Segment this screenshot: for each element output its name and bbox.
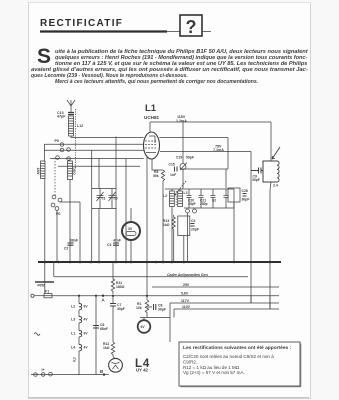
svg-text:C5: C5 — [114, 197, 118, 201]
wire C3 column — [125, 159, 127, 262]
svg-text:Vg (2+4) = 57 V et non 57 mA.: Vg (2+4) = 57 V et non 57 mA. — [183, 370, 245, 375]
switch P0 lower contacts — [51, 195, 62, 210]
svg-text:C1: C1 — [102, 197, 106, 201]
mains terminal left — [31, 294, 34, 297]
wire HT drop right — [270, 122, 272, 161]
ground bus — [38, 261, 281, 263]
capacitor C6 — [93, 326, 99, 329]
wire left column lower — [44, 179, 46, 263]
svg-text:5,6V: 5,6V — [181, 291, 189, 295]
wire heater rail — [52, 295, 279, 297]
svg-text:30µF: 30µF — [158, 308, 166, 312]
intro paragraph — [55, 50, 308, 56]
svg-text:R12 = 1 kΩ au lieu de 1 MΩ: R12 = 1 kΩ au lieu de 1 MΩ — [183, 365, 240, 370]
wire tube to bottom line — [103, 366, 105, 369]
output coil L4 box — [263, 161, 279, 309]
svg-text:C9/R2.: C9/R2. — [183, 359, 197, 364]
svg-text:UCH81: UCH81 — [144, 115, 160, 120]
heading RECTIFICATIF — [40, 19, 123, 29]
svg-text:Cadre Antiparasites Gen: Cadre Antiparasites Gen — [167, 273, 208, 277]
wire C28 column — [233, 202, 235, 262]
wire L5 to bus — [174, 232, 184, 262]
svg-text:UY 42: UY 42 — [136, 367, 148, 372]
svg-text:180Ω: 180Ω — [116, 285, 125, 289]
svg-text:9V: 9V — [84, 332, 89, 336]
wire C6 column — [95, 296, 97, 375]
wire selector drop — [44, 262, 46, 282]
coil T1 antenna secondary — [41, 161, 46, 179]
svg-text:47nF: 47nF — [113, 239, 121, 243]
svg-text:3V: 3V — [128, 227, 133, 231]
capacitor C22 — [224, 189, 229, 208]
IF bottom rail — [184, 189, 234, 208]
wire grid line 3 — [58, 165, 140, 167]
svg-text:68nF: 68nF — [100, 327, 108, 331]
wire oscillator anode — [159, 138, 228, 170]
capacitor C7 — [110, 304, 116, 307]
capacitor C15 — [175, 167, 178, 172]
svg-text:L2: L2 — [71, 305, 75, 309]
? box — [180, 15, 202, 36]
svg-text:OSC: OSC — [73, 167, 77, 175]
heater L3 — [79, 317, 82, 323]
svg-text:4V: 4V — [84, 318, 89, 322]
svg-text:I+: I+ — [42, 368, 45, 372]
svg-text:2.4: 2.4 — [273, 184, 278, 188]
wire — [78, 310, 80, 317]
wire contacts to bus — [172, 207, 188, 263]
switch contacts S — [186, 209, 197, 213]
svg-text:Les rectifications suivantes o: Les rectifications suivantes ont été app… — [183, 345, 292, 351]
indicator lamp 6V — [138, 315, 170, 333]
node B — [103, 373, 105, 375]
svg-text:117V: 117V — [181, 299, 190, 303]
AC symbol — [34, 333, 40, 336]
capacitor C8 — [147, 304, 156, 310]
oscillator section box C28 — [228, 188, 240, 202]
tap line 110V — [174, 309, 279, 318]
wire antenna coil bottom — [71, 136, 144, 138]
svg-text:25V: 25V — [183, 283, 190, 287]
coil L5 box — [178, 216, 190, 236]
wire to ? box — [167, 31, 180, 33]
svg-text:30pF: 30pF — [252, 178, 260, 182]
wire cathode drop — [146, 157, 148, 262]
coil L2 — [170, 191, 175, 207]
coil L12 antenna primary — [69, 109, 76, 169]
fuse F1 — [34, 294, 52, 298]
wire — [78, 337, 80, 345]
svg-text:B: B — [100, 369, 103, 374]
tap line 117V — [170, 303, 279, 318]
coil T2 oscillator — [68, 161, 73, 180]
svg-text:47pF: 47pF — [57, 115, 66, 119]
svg-text:L4: L4 — [71, 346, 75, 350]
svg-text:F050: F050 — [38, 284, 46, 288]
svg-text:C15: C15 — [169, 163, 175, 167]
wire oscillator column — [69, 180, 71, 263]
svg-text:7,1mA: 7,1mA — [213, 148, 224, 152]
mains terminals — [34, 372, 53, 376]
capacitor C4 — [191, 224, 195, 227]
tube V1 internal electrodes — [145, 136, 157, 153]
wire oscillator coil top — [69, 160, 71, 162]
wire to note box — [169, 318, 171, 343]
svg-text:S2: S2 — [212, 199, 216, 203]
rail junction dots — [78, 295, 148, 297]
title underline — [40, 30, 167, 32]
wire grid drop — [115, 137, 117, 263]
capacitor C21 — [199, 189, 204, 208]
svg-text:6V: 6V — [141, 325, 146, 329]
page bottom edge — [28, 397, 309, 399]
svg-text:250p: 250p — [200, 202, 208, 206]
svg-text:P0: P0 — [55, 139, 59, 143]
mains line — [31, 374, 109, 376]
wire selector to fuse — [44, 282, 46, 294]
capacitor C9 — [251, 168, 263, 174]
heater chain wire — [78, 296, 80, 304]
wire top switch rail — [44, 143, 143, 145]
wire left column — [43, 144, 45, 161]
svg-text:A: A — [102, 298, 106, 303]
wire — [78, 323, 80, 331]
resistor R13 — [172, 215, 175, 232]
svg-text:P0: P0 — [56, 212, 60, 216]
wire screen line 75V — [160, 151, 251, 153]
resistor R11 — [111, 262, 114, 294]
coil L3 — [178, 191, 183, 207]
capacitor S2 — [211, 189, 216, 208]
tap line 25V — [152, 286, 279, 288]
svg-text:9V: 9V — [84, 305, 89, 309]
wire right columns below bus — [251, 296, 270, 309]
svg-text:L1: L1 — [145, 103, 157, 114]
note box shadow — [181, 344, 301, 387]
node A — [102, 295, 104, 297]
note box frame — [179, 342, 300, 386]
capacitor C20 — [187, 189, 192, 208]
dashed tuning link — [175, 181, 186, 195]
svg-text:1,2mA: 1,2mA — [176, 119, 187, 123]
svg-text:10k: 10k — [136, 306, 142, 310]
resistor R12 — [111, 342, 114, 357]
wire oscillator grid rail — [180, 169, 228, 188]
svg-text:68nF: 68nF — [70, 239, 78, 243]
resistor R1 column — [146, 262, 148, 300]
svg-text:1kΩ: 1kΩ — [103, 346, 110, 350]
svg-text:C3: C3 — [107, 243, 111, 247]
heater L2 — [79, 304, 82, 310]
svg-text:C4: C4 — [191, 219, 195, 223]
dial lamp tube 3V — [122, 208, 140, 262]
wire grid line 1 — [44, 149, 143, 151]
capacitor C2 — [66, 241, 74, 246]
variable capacitor C5 — [99, 189, 116, 263]
svg-text:L12: L12 — [77, 124, 83, 128]
wire IF rail — [165, 189, 234, 191]
wire anode top — [149, 122, 151, 133]
svg-text:50pF: 50pF — [186, 156, 194, 160]
svg-text:110V: 110V — [182, 305, 191, 309]
svg-text:F1: F1 — [45, 290, 49, 294]
svg-text:L3: L3 — [71, 318, 75, 322]
intro paragraph drop cap — [37, 49, 51, 64]
wire grid line 2 — [50, 157, 144, 159]
capacitor C13 — [68, 113, 74, 115]
svg-text:4V: 4V — [84, 346, 89, 350]
wire R11 to R12 — [112, 296, 114, 342]
dashed core L2 L3 — [175, 191, 177, 206]
svg-text:C19: C19 — [176, 156, 182, 160]
wire heater chain bottom — [78, 351, 80, 375]
svg-text:20pF: 20pF — [191, 228, 199, 232]
svg-text:ANT: ANT — [37, 167, 41, 175]
variable capacitor frame — [92, 150, 117, 262]
svg-text:30pF: 30pF — [188, 202, 196, 206]
resistor R1 — [145, 300, 148, 315]
switch P0 upper contacts — [56, 143, 71, 161]
tube V1 UCH81 envelope — [144, 132, 160, 159]
wire HT line 115V — [150, 121, 271, 123]
svg-text:1nF: 1nF — [170, 173, 176, 177]
voltage selector bar — [35, 281, 54, 283]
capacitor C28 — [243, 194, 247, 197]
wire cadre drop — [53, 262, 55, 277]
svg-text:C2: C2 — [64, 247, 68, 251]
wire switch to bus — [57, 202, 80, 262]
svg-text:1kΩ: 1kΩ — [163, 223, 170, 227]
svg-text:50k: 50k — [153, 174, 159, 178]
svg-text:6,3: 6,3 — [73, 357, 77, 362]
tuning arrow — [272, 147, 280, 159]
antenna — [67, 100, 75, 112]
svg-text:C2/C20 sont relées au noeud C9: C2/C20 sont relées au noeud C9/S2 et non… — [183, 354, 274, 359]
svg-text:L1: L1 — [71, 332, 75, 336]
resistor R5 — [152, 159, 165, 262]
wire after ? box — [202, 31, 211, 33]
rectifier tube V2 UY42 — [109, 357, 123, 373]
heater L4 — [79, 345, 82, 351]
svg-text:C28: C28 — [242, 189, 248, 193]
ganged switch dashed link — [54, 158, 56, 196]
bus junction dots — [44, 261, 272, 264]
svg-text:L3: L3 — [184, 191, 188, 195]
wire screen drop right — [250, 152, 252, 304]
svg-text:?: ? — [186, 17, 197, 37]
capacitor C3 — [113, 243, 119, 245]
svg-text:30µF: 30µF — [117, 307, 125, 311]
trimmer C19 — [180, 122, 187, 189]
svg-text:L2: L2 — [163, 194, 167, 198]
variable capacitor C1 — [97, 189, 104, 209]
tap line cadre — [54, 276, 248, 278]
svg-text:30pF: 30pF — [242, 198, 250, 202]
heater L1 — [79, 331, 82, 337]
